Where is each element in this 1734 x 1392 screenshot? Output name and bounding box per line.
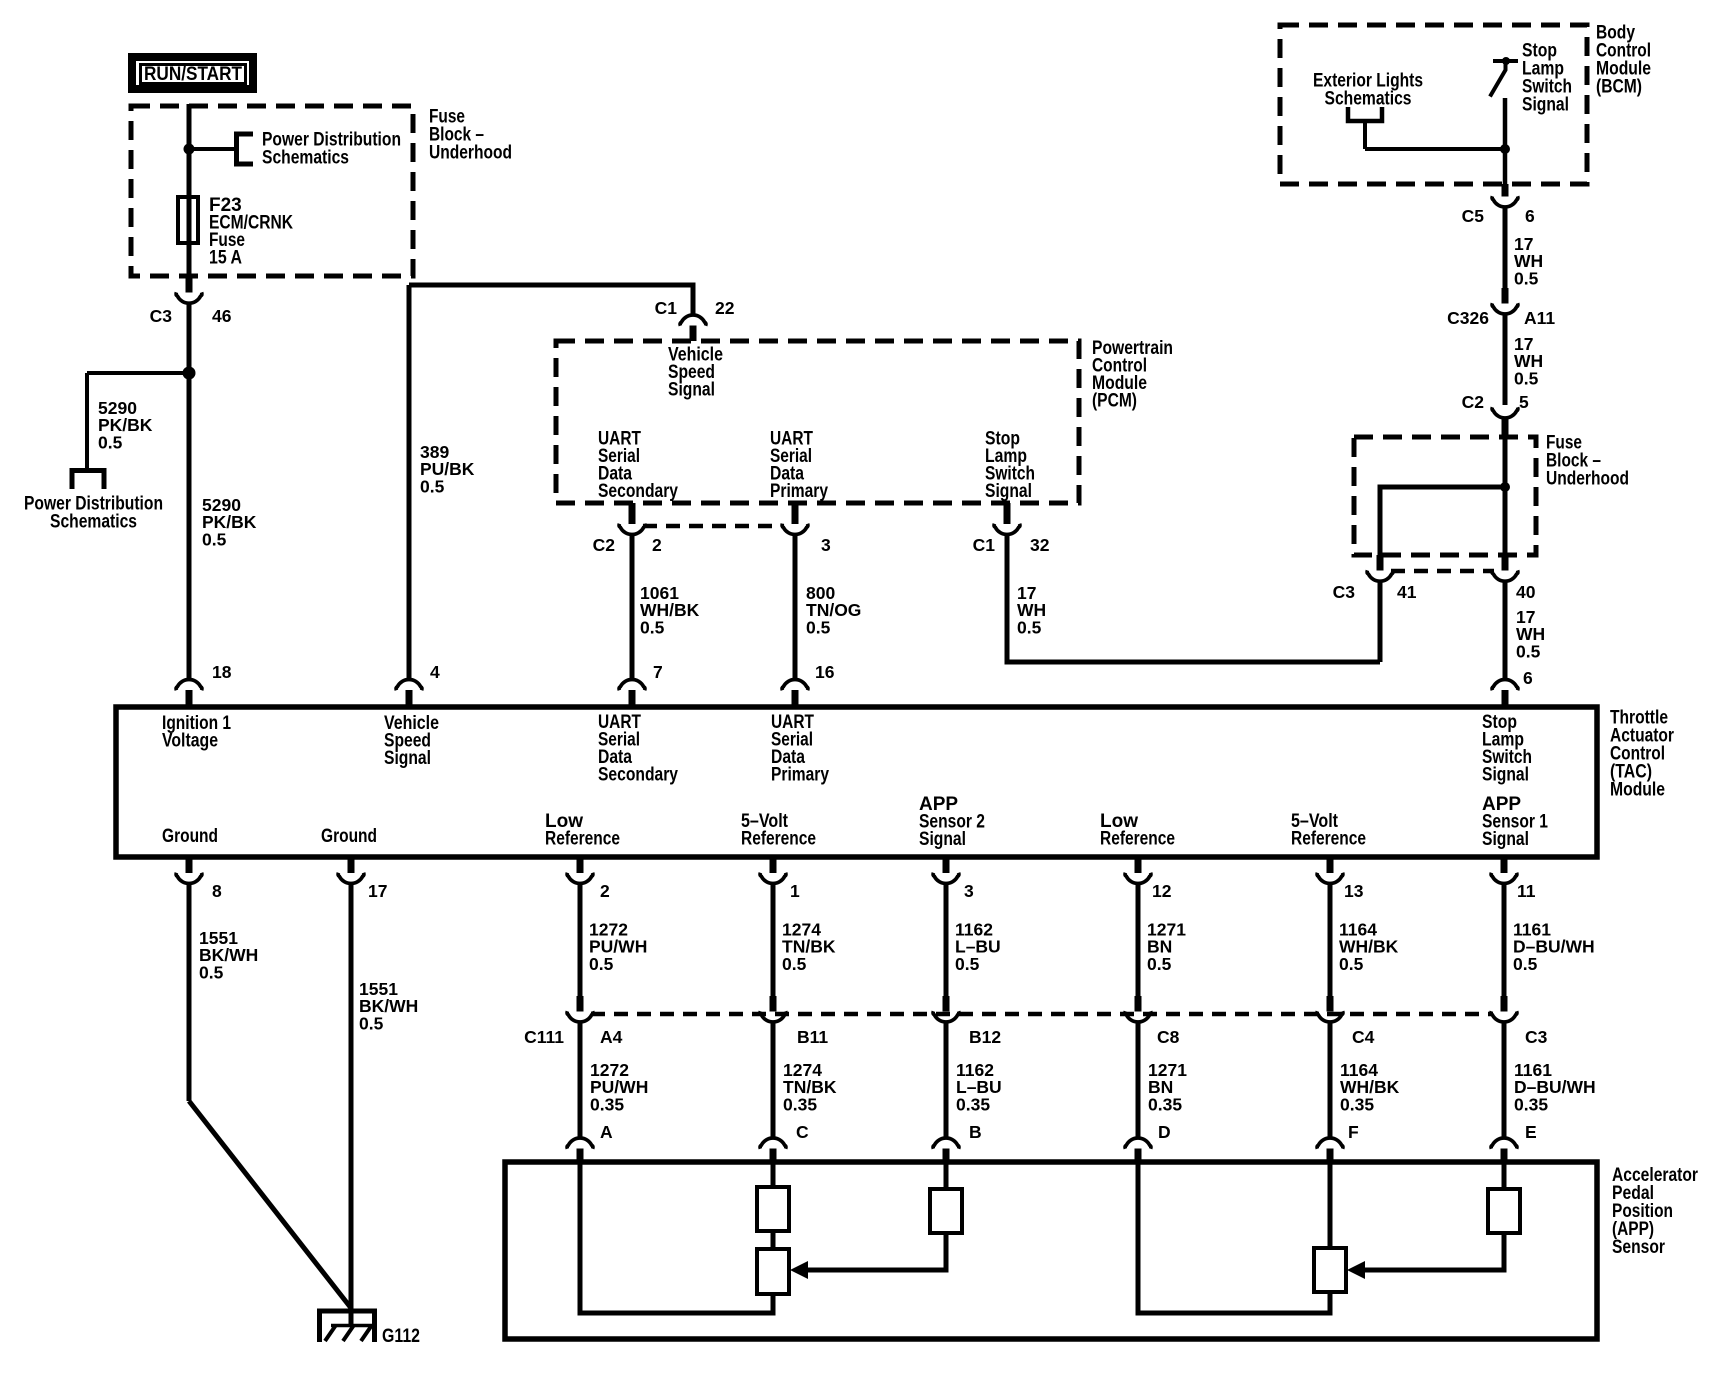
svg-text:0.5: 0.5 xyxy=(1516,641,1541,661)
svg-text:6: 6 xyxy=(1525,206,1535,226)
connector C2 pin 5 xyxy=(1492,407,1518,418)
svg-text:Secondary: Secondary xyxy=(598,481,678,502)
junction in BCM xyxy=(1500,144,1510,154)
svg-text:B: B xyxy=(969,1122,982,1142)
label 2 xyxy=(652,535,662,555)
wire label 1551 BK/WH 0.5 xyxy=(199,928,258,982)
BCM dashed box xyxy=(1280,25,1587,184)
svg-text:40: 40 xyxy=(1516,582,1536,602)
svg-text:E: E xyxy=(1525,1122,1537,1142)
connector C1 pin 22 stub xyxy=(690,326,697,342)
fuse block underhood dashed box (right) xyxy=(1354,437,1536,555)
label Stop Lamp Switch Signal xyxy=(1482,712,1532,786)
svg-text:15 A: 15 A xyxy=(209,248,242,269)
wire 1551 BK/WH from pin 17 xyxy=(349,884,354,1326)
svg-text:A: A xyxy=(600,1122,613,1142)
svg-text:Secondary: Secondary xyxy=(598,765,678,786)
connector APP pin F xyxy=(1317,1138,1343,1149)
svg-text:C3: C3 xyxy=(1525,1027,1548,1047)
svg-text:(BCM): (BCM) xyxy=(1596,77,1642,98)
connector APP pin D xyxy=(1125,1138,1151,1149)
label 5 xyxy=(1519,392,1529,412)
connector TAC pin 18 xyxy=(176,679,202,690)
connector group dashed line xyxy=(1391,569,1494,574)
svg-text:Underhood: Underhood xyxy=(1546,469,1629,490)
svg-text:Ground: Ground xyxy=(321,826,377,847)
svg-text:0.5: 0.5 xyxy=(1513,954,1538,974)
label 16 xyxy=(815,662,835,682)
wire label 1161 D–BU/WH 0.5 xyxy=(1513,920,1595,974)
connector C2 pin 3 xyxy=(782,524,808,535)
label Body Control Module BCM xyxy=(1596,23,1651,98)
svg-text:C326: C326 xyxy=(1447,308,1489,328)
svg-text:F: F xyxy=(1348,1122,1359,1142)
svg-text:0.5: 0.5 xyxy=(202,529,227,549)
connector pin 40 xyxy=(1492,570,1518,581)
connector C1 pin 32 xyxy=(994,524,1020,535)
svg-text:41: 41 xyxy=(1397,582,1417,602)
svg-text:Signal: Signal xyxy=(919,829,966,850)
connector C326 stub xyxy=(1502,288,1509,304)
wire to stop lamp switch node xyxy=(1365,147,1505,151)
stop lamp switch symbol xyxy=(1493,59,1518,63)
label pin A xyxy=(600,1122,613,1142)
junction to power distribution schematics xyxy=(183,367,196,380)
wire low reference to pot 1 xyxy=(580,1162,773,1313)
svg-text:0.35: 0.35 xyxy=(1514,1094,1548,1114)
connector C3 pin 41 stub xyxy=(1377,555,1384,571)
wire label 5290 PK/BK 0.5 xyxy=(98,398,153,452)
wire branch to C3 41 xyxy=(1380,487,1505,555)
label UART Serial Data Secondary xyxy=(598,429,678,503)
connector APP pin C xyxy=(760,1138,786,1149)
wire label 17 WH 0.5 xyxy=(1516,607,1545,661)
label 4 xyxy=(430,662,440,682)
svg-text:12: 12 xyxy=(1152,881,1172,901)
wire 17 WH from PCM C1 32 xyxy=(1007,535,1380,663)
connector TAC pin 3 xyxy=(933,873,959,884)
label 3 xyxy=(821,535,831,555)
label 1 xyxy=(790,881,800,901)
svg-text:Ground: Ground xyxy=(162,826,218,847)
svg-text:Signal: Signal xyxy=(1482,829,1529,850)
svg-text:0.35: 0.35 xyxy=(590,1094,624,1114)
svg-text:0.35: 0.35 xyxy=(1148,1094,1182,1114)
svg-text:0.5: 0.5 xyxy=(1017,617,1042,637)
svg-text:Signal: Signal xyxy=(384,748,431,769)
wire label 1551 BK/WH 0.5 xyxy=(359,979,418,1033)
label A4 xyxy=(600,1027,623,1047)
connector C2 pin 3 stub xyxy=(792,503,799,524)
label 5-Volt Reference xyxy=(1291,811,1366,850)
wire label 17 WH 0.5 xyxy=(1017,583,1046,637)
wire 1274 TN/BK 0.35 xyxy=(771,1022,776,1139)
svg-text:G112: G112 xyxy=(382,1326,420,1347)
svg-text:4: 4 xyxy=(430,662,440,682)
svg-text:RUN/START: RUN/START xyxy=(144,64,242,85)
wire 1162 L–BU 0.35 xyxy=(944,1022,949,1139)
label 46 xyxy=(212,306,232,326)
wire 1164 WH/BK 0.5 xyxy=(1328,884,1333,998)
wire between pot 1 elements xyxy=(771,1231,776,1251)
connector TAC pin 1 xyxy=(760,873,786,884)
connector C3 pin 41 xyxy=(1367,570,1393,581)
wire low reference to pot 2 xyxy=(1138,1162,1330,1313)
connector TAC pin 17 xyxy=(338,873,364,884)
wire from exterior lights ref xyxy=(1363,121,1367,149)
label C8 xyxy=(1157,1027,1180,1047)
wire label 1272 PU/WH 0.5 xyxy=(589,920,647,974)
label C3 xyxy=(1333,582,1356,602)
label C3 xyxy=(1525,1027,1548,1047)
connector APP pin A xyxy=(567,1138,593,1149)
label Stop Lamp Switch Signal xyxy=(1522,41,1572,116)
label 7 xyxy=(653,662,663,682)
label Fuse Block Underhood xyxy=(1546,433,1629,490)
wire 17 WH to TAC pin 6 xyxy=(1503,581,1508,681)
label pin C xyxy=(796,1122,809,1142)
label 40 xyxy=(1516,582,1536,602)
svg-text:A4: A4 xyxy=(600,1027,623,1047)
svg-text:0.5: 0.5 xyxy=(420,476,445,496)
label Ground xyxy=(162,826,218,847)
label Stop Lamp Switch Signal xyxy=(985,429,1035,503)
wire RUN/START to fuse F23 xyxy=(187,104,192,278)
wire vehicle speed signal from PCM C1 22 xyxy=(409,285,693,315)
svg-text:0.5: 0.5 xyxy=(1514,368,1539,388)
connector TAC pin 11 xyxy=(1491,873,1517,884)
wire 1272 PU/WH 0.5 xyxy=(578,884,583,998)
svg-text:0.5: 0.5 xyxy=(955,954,980,974)
Accelerator Pedal Position APP sensor box xyxy=(505,1162,1597,1339)
junction inside fuse block xyxy=(1500,482,1510,492)
label Fuse Block Underhood xyxy=(429,107,512,164)
svg-text:0.35: 0.35 xyxy=(783,1094,817,1114)
label G112 xyxy=(382,1326,420,1347)
label C1 xyxy=(655,298,678,318)
label 18 xyxy=(212,662,232,682)
RUN/START switch box xyxy=(132,57,253,89)
svg-text:C2: C2 xyxy=(593,535,616,555)
resistor pot 2 wiper element xyxy=(1314,1248,1346,1292)
label APP Sensor 1 Signal xyxy=(1482,794,1548,850)
off-page bracket: Exterior Lights Schematics xyxy=(1348,107,1382,121)
svg-text:Schematics: Schematics xyxy=(1325,89,1412,110)
wire branch to power distribution ref xyxy=(189,147,236,151)
connector C3 pin 46 xyxy=(176,292,202,303)
wire APP sensor 1 signal xyxy=(1502,1162,1507,1191)
label 3 xyxy=(964,881,974,901)
wire 1061 WH/BK xyxy=(630,535,635,682)
svg-text:C2: C2 xyxy=(1462,392,1485,412)
fuse block underhood dashed box (left) xyxy=(131,106,413,276)
svg-text:C4: C4 xyxy=(1352,1027,1375,1047)
label C111 xyxy=(524,1027,564,1047)
wire label 1274 TN/BK 0.35 xyxy=(783,1060,837,1114)
svg-text:Signal: Signal xyxy=(1482,765,1529,786)
wire label 1164 WH/BK 0.35 xyxy=(1340,1060,1400,1114)
label 32 xyxy=(1030,535,1050,555)
svg-text:17: 17 xyxy=(368,881,387,901)
connector C2 group dashed line xyxy=(643,524,784,529)
label UART Serial Data Primary xyxy=(770,429,828,503)
svg-text:Reference: Reference xyxy=(741,829,816,850)
connector C5 pin 6 stub xyxy=(1502,184,1509,197)
wire 17 WH to horizontal run xyxy=(1378,581,1383,662)
svg-text:7: 7 xyxy=(653,662,663,682)
wire 1271 BN 0.5 xyxy=(1136,884,1141,998)
connector C326 pin A11 xyxy=(1492,303,1518,314)
label 12 xyxy=(1152,881,1172,901)
svg-text:22: 22 xyxy=(715,298,735,318)
svg-text:Signal: Signal xyxy=(985,481,1032,502)
connector C111 pin C3 xyxy=(1491,1011,1517,1022)
PCM dashed box xyxy=(556,341,1079,503)
connector C111 pin A4 xyxy=(567,1011,593,1022)
wire label 17 WH 0.5 xyxy=(1514,334,1543,388)
svg-text:C3: C3 xyxy=(150,306,173,326)
label Powertrain Control Module PCM xyxy=(1092,338,1173,412)
label 11 xyxy=(1517,881,1536,901)
wire inside fuse block xyxy=(1503,437,1508,555)
svg-text:(PCM): (PCM) xyxy=(1092,391,1137,412)
svg-text:2: 2 xyxy=(652,535,662,555)
wire APP sensor 2 signal xyxy=(944,1162,949,1191)
wire label 1161 D–BU/WH 0.35 xyxy=(1514,1060,1596,1114)
wire branch down xyxy=(85,373,89,468)
wire label 1274 TN/BK 0.5 xyxy=(782,920,836,974)
wire label 1271 BN 0.5 xyxy=(1147,920,1186,974)
label 8 xyxy=(212,881,222,901)
svg-text:0.5: 0.5 xyxy=(98,432,123,452)
label Throttle Actuator Control TAC Module xyxy=(1610,708,1674,801)
off-page bracket: Power Distribution Schematics (bottom) xyxy=(72,471,104,490)
svg-text:Reference: Reference xyxy=(545,829,620,850)
wire 5-volt to pot 1 xyxy=(771,1162,776,1189)
connector C111 pin B12 xyxy=(933,1011,959,1022)
wire label 1271 BN 0.35 xyxy=(1148,1060,1187,1114)
svg-text:Module: Module xyxy=(1610,780,1665,801)
svg-text:C8: C8 xyxy=(1157,1027,1180,1047)
svg-text:0.5: 0.5 xyxy=(782,954,807,974)
svg-text:0.5: 0.5 xyxy=(199,962,224,982)
svg-text:Signal: Signal xyxy=(1522,95,1569,116)
label Exterior Lights Schematics xyxy=(1313,71,1423,110)
svg-text:0.5: 0.5 xyxy=(1147,954,1172,974)
svg-text:32: 32 xyxy=(1030,535,1050,555)
wiper arrow left xyxy=(790,1261,808,1279)
label pin F xyxy=(1348,1122,1359,1142)
svg-text:0.5: 0.5 xyxy=(589,954,614,974)
connector APP pin B xyxy=(933,1138,959,1149)
connector C111 pin C4 xyxy=(1317,1011,1343,1022)
connector TAC pin 12 xyxy=(1125,873,1151,884)
wire label 17 WH 0.5 xyxy=(1514,234,1543,288)
label B12 xyxy=(969,1027,1001,1047)
off-page bracket: Power Distribution Schematics xyxy=(237,134,254,164)
label pin B xyxy=(969,1122,982,1142)
connector C2 pin 5 stub xyxy=(1502,418,1509,437)
label Ignition 1 Voltage xyxy=(162,713,231,752)
svg-text:A11: A11 xyxy=(1524,308,1555,328)
wire label 1162 L–BU 0.5 xyxy=(955,920,1001,974)
label APP Sensor 2 Signal xyxy=(919,794,985,850)
wire label 1162 L–BU 0.35 xyxy=(956,1060,1002,1114)
wire wiper arm right xyxy=(1363,1233,1504,1270)
label UART Serial Data Primary xyxy=(771,712,829,786)
label 5-Volt Reference xyxy=(741,811,816,850)
wire 1271 BN 0.35 xyxy=(1136,1022,1141,1139)
label UART Serial Data Secondary xyxy=(598,712,678,786)
svg-text:Reference: Reference xyxy=(1291,829,1366,850)
connector TAC pin 2 xyxy=(567,873,593,884)
wire 5290 PK/BK xyxy=(187,303,192,681)
label 2 xyxy=(600,881,610,901)
connector pin 40 stub xyxy=(1502,555,1509,571)
svg-text:6: 6 xyxy=(1523,668,1533,688)
connector TAC pin 4 xyxy=(396,679,422,690)
connector TAC pin 7 xyxy=(619,679,645,690)
svg-text:13: 13 xyxy=(1344,881,1364,901)
wire 1272 PU/WH 0.35 xyxy=(578,1022,583,1139)
resistor pot 1 upper element xyxy=(757,1187,789,1231)
svg-text:Schematics: Schematics xyxy=(262,148,349,169)
svg-text:18: 18 xyxy=(212,662,232,682)
label 17 xyxy=(368,881,387,901)
svg-text:2: 2 xyxy=(600,881,610,901)
label Low Reference xyxy=(1100,811,1175,850)
label C5 xyxy=(1462,206,1485,226)
connector TAC pin 16 xyxy=(782,679,808,690)
wire 1161 D–BU/WH 0.35 xyxy=(1502,1022,1507,1139)
label Power Distribution Schematics xyxy=(24,494,163,533)
wire 800 TN/OG xyxy=(793,535,798,682)
svg-text:Reference: Reference xyxy=(1100,829,1175,850)
wire 17 WH xyxy=(1503,314,1508,405)
junction in fuse block xyxy=(184,144,195,155)
label Vehicle Speed Signal xyxy=(668,345,723,401)
label Ground xyxy=(321,826,377,847)
wire label 5290 PK/BK 0.5 xyxy=(202,495,257,549)
svg-text:0.5: 0.5 xyxy=(640,617,665,637)
svg-text:C3: C3 xyxy=(1333,582,1356,602)
resistor pot wiper feed left xyxy=(930,1189,962,1233)
svg-text:C111: C111 xyxy=(524,1027,564,1047)
wire label 389 PU/BK 0.5 xyxy=(420,442,475,496)
label A11 xyxy=(1524,308,1555,328)
wiper arrow right xyxy=(1347,1261,1365,1279)
wire 389 PU/BK down to TAC pin 4 xyxy=(407,285,412,681)
svg-text:0.5: 0.5 xyxy=(1514,268,1539,288)
connector C1 pin 32 stub xyxy=(1004,503,1011,524)
label pin D xyxy=(1158,1122,1171,1142)
svg-text:5: 5 xyxy=(1519,392,1529,412)
label 22 xyxy=(715,298,735,318)
svg-text:Underhood: Underhood xyxy=(429,143,512,164)
svg-text:C1: C1 xyxy=(655,298,678,318)
resistor pot 1 wiper element xyxy=(757,1249,789,1294)
svg-text:B12: B12 xyxy=(969,1027,1001,1047)
wire 1274 TN/BK 0.5 xyxy=(771,884,776,998)
svg-text:Primary: Primary xyxy=(771,765,829,786)
svg-text:0.5: 0.5 xyxy=(1339,954,1364,974)
label C4 xyxy=(1352,1027,1375,1047)
wire branch left xyxy=(87,371,189,375)
wire 1164 WH/BK 0.35 xyxy=(1328,1022,1333,1139)
wire diagonal to G112 xyxy=(189,1101,351,1308)
svg-text:1: 1 xyxy=(790,881,800,901)
svg-text:Schematics: Schematics xyxy=(50,512,137,533)
wire label 1164 WH/BK 0.5 xyxy=(1339,920,1399,974)
connector C111 pin B11 xyxy=(760,1011,786,1022)
svg-text:11: 11 xyxy=(1517,881,1536,901)
label B11 xyxy=(797,1027,828,1047)
wire 1551 BK/WH from pin 8 xyxy=(187,884,192,1102)
switch blade xyxy=(1490,61,1506,97)
label C2 xyxy=(1462,392,1485,412)
connector C111 dashed line xyxy=(591,1012,1493,1017)
svg-text:C1: C1 xyxy=(973,535,996,555)
svg-text:0.35: 0.35 xyxy=(956,1094,990,1114)
label C3 xyxy=(150,306,173,326)
wire 1161 D–BU/WH 0.5 xyxy=(1502,884,1507,998)
label Low Reference xyxy=(545,811,620,850)
svg-text:46: 46 xyxy=(212,306,232,326)
label 41 xyxy=(1397,582,1417,602)
svg-text:3: 3 xyxy=(964,881,974,901)
resistor pot wiper feed right xyxy=(1488,1189,1520,1233)
label C326 xyxy=(1447,308,1489,328)
wire label 800 TN/OG 0.5 xyxy=(806,583,861,637)
svg-text:Sensor: Sensor xyxy=(1612,1237,1665,1258)
connector C3 pin 46 stub xyxy=(186,276,193,293)
wire 1162 L–BU 0.5 xyxy=(944,884,949,998)
connector C2 pin 2 xyxy=(619,524,645,535)
Throttle Actuator Control TAC module box xyxy=(116,707,1597,857)
svg-text:3: 3 xyxy=(821,535,831,555)
svg-text:0.5: 0.5 xyxy=(359,1013,384,1033)
svg-text:0.35: 0.35 xyxy=(1340,1094,1374,1114)
fuse F23 ECM/CRNK 15A xyxy=(178,197,198,243)
label C2 xyxy=(593,535,616,555)
label Accelerator Pedal Position APP Sensor xyxy=(1612,1165,1698,1258)
wire 17 WH xyxy=(1503,207,1508,288)
svg-text:C5: C5 xyxy=(1462,206,1485,226)
svg-text:D: D xyxy=(1158,1122,1171,1142)
label Power Distribution Schematics xyxy=(262,130,401,169)
label 13 xyxy=(1344,881,1364,901)
wire wiper arm left xyxy=(806,1233,946,1270)
label Vehicle Speed Signal xyxy=(384,713,439,769)
label pin E xyxy=(1525,1122,1537,1142)
wire label 1272 PU/WH 0.35 xyxy=(590,1060,648,1114)
svg-text:Voltage: Voltage xyxy=(162,731,218,752)
wire stop lamp switch signal in BCM xyxy=(1503,98,1508,184)
wire label 1061 WH/BK 0.5 xyxy=(640,583,700,637)
label 6 xyxy=(1525,206,1535,226)
svg-text:16: 16 xyxy=(815,662,835,682)
svg-text:0.5: 0.5 xyxy=(806,617,831,637)
connector TAC pin 13 xyxy=(1317,873,1343,884)
connector TAC pin 8 xyxy=(176,873,202,884)
connector TAC pin 6 xyxy=(1492,679,1518,690)
label 6 xyxy=(1523,668,1533,688)
label C1 xyxy=(973,535,996,555)
label F23 ECM/CRNK Fuse 15A xyxy=(209,195,293,269)
wire 5-volt to pot 2 xyxy=(1328,1162,1333,1250)
connector C2 pin 2 stub xyxy=(629,503,636,524)
ground G112 xyxy=(320,1311,375,1342)
